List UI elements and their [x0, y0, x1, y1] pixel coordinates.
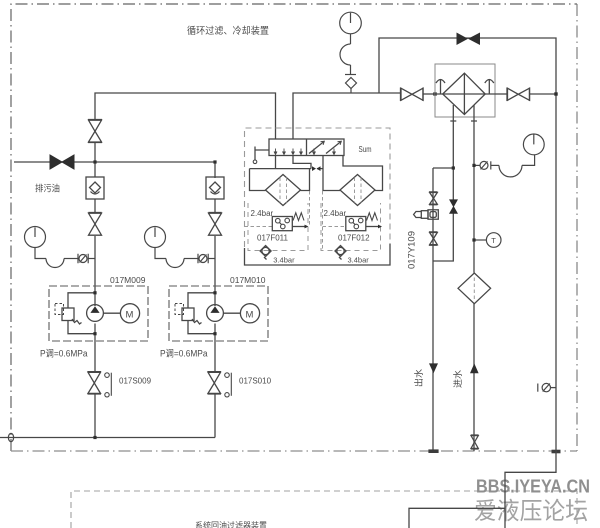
svg-text:017M009: 017M009 [110, 275, 146, 285]
svg-text:T: T [491, 236, 496, 245]
svg-text:排污油: 排污油 [35, 183, 60, 194]
svg-text:Sum: Sum [359, 144, 372, 154]
svg-text:017S010: 017S010 [239, 377, 272, 386]
svg-text:017F012: 017F012 [338, 234, 370, 243]
svg-text:017M010: 017M010 [230, 275, 266, 285]
svg-text:M: M [126, 310, 134, 321]
svg-text:2.4bar: 2.4bar [251, 209, 274, 218]
svg-text:P调=0.6MPa: P调=0.6MPa [40, 349, 88, 359]
svg-text:3.4bar: 3.4bar [348, 255, 370, 264]
svg-text:P调=0.6MPa: P调=0.6MPa [160, 349, 208, 359]
svg-text:M: M [246, 310, 254, 321]
svg-text:3.4bar: 3.4bar [273, 255, 295, 264]
svg-text:爱液压论坛: 爱液压论坛 [474, 498, 588, 525]
svg-text:017F011: 017F011 [257, 234, 289, 243]
svg-text:循环过滤、冷却装置: 循环过滤、冷却装置 [187, 25, 269, 37]
svg-text:出水: 出水 [413, 369, 424, 387]
svg-text:BBS.IYEYA.CN: BBS.IYEYA.CN [476, 477, 590, 497]
svg-text:2.4bar: 2.4bar [324, 209, 347, 218]
svg-text:进水: 进水 [452, 370, 463, 388]
svg-text:系统回油过滤器装置: 系统回油过滤器装置 [195, 521, 267, 528]
svg-text:017Y109: 017Y109 [407, 231, 417, 269]
svg-text:017S009: 017S009 [119, 377, 152, 386]
